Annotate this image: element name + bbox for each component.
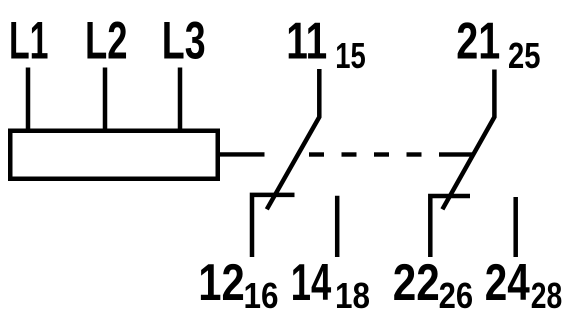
trip linkage dashed line [309,152,473,156]
svg-text:16: 16 [244,275,279,316]
contact 2 NC bar + terminal 22 lead [430,196,470,257]
svg-text:28: 28 [531,275,563,316]
overload heater element box [10,131,218,179]
svg-text:L1: L1 [9,12,49,71]
svg-text:L3: L3 [162,12,206,71]
wire L1 to heater box [26,68,31,134]
wire L3 to heater box [178,68,183,134]
svg-text:15: 15 [335,35,366,76]
svg-text:25: 25 [508,35,541,76]
svg-text:11: 11 [286,12,327,70]
svg-text:L2: L2 [85,12,128,71]
svg-text:12: 12 [198,254,245,312]
contact 2 common lead + lever (terminal 21) [442,70,494,210]
contact 2 NO terminal 24 lead [513,197,518,257]
svg-text:21: 21 [456,12,500,70]
svg-text:22: 22 [393,254,440,312]
contact 1 NO terminal 14 lead [335,196,340,257]
wire L2 to heater box [103,68,108,134]
svg-text:24: 24 [485,254,530,312]
svg-text:14: 14 [291,254,332,312]
contact 1 common lead + lever (terminal 11) [267,69,320,209]
svg-text:18: 18 [335,275,370,316]
svg-text:26: 26 [439,275,474,316]
trip linkage solid wire from box [219,152,265,156]
contact 1 NC bar + terminal 12 lead [252,195,295,257]
